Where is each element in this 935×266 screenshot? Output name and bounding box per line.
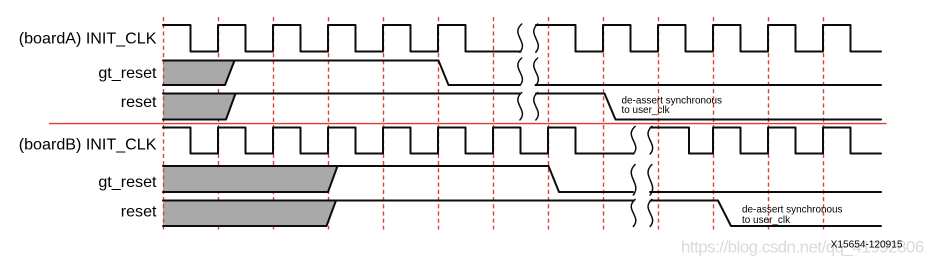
svg-text:to user_clk: to user_clk bbox=[742, 215, 790, 226]
gridline x=163 bbox=[163, 17, 165, 230]
gray dont-care region boardA gt_reset bbox=[163, 61, 235, 86]
time-break squiggle boardB clock right bbox=[648, 126, 653, 154]
gridline x=713 bbox=[713, 17, 715, 230]
waveform boardA reset high/fall/low bbox=[163, 94, 881, 120]
gridline x=493 bbox=[493, 17, 495, 230]
waveform boardA reset dont-care bottom edge and rise bbox=[163, 94, 236, 120]
red dashed clock gridlines bbox=[219, 17, 824, 230]
svg-text:(boardB) INIT_CLK: (boardB) INIT_CLK bbox=[19, 136, 157, 154]
time-break squiggle boardA reset left bbox=[518, 93, 523, 121]
time-break squiggle boardB gt_reset right bbox=[648, 165, 653, 196]
time-break squiggle boardA clock left bbox=[518, 24, 523, 52]
svg-text:X15654-120915: X15654-120915 bbox=[831, 240, 903, 251]
time-break squiggle boardB clock left bbox=[631, 126, 636, 154]
gridline x=218 bbox=[218, 17, 220, 230]
time-break squiggle boardB gt_reset left bbox=[631, 165, 636, 196]
svg-text:gt_reset: gt_reset bbox=[98, 173, 157, 191]
gridline x=603 bbox=[603, 17, 605, 230]
svg-text:reset: reset bbox=[121, 93, 157, 111]
time-break squiggle boardB reset left bbox=[631, 199, 636, 226]
gridline x=273 bbox=[273, 17, 275, 230]
gridline x=658 bbox=[658, 17, 660, 230]
svg-text:reset: reset bbox=[121, 202, 157, 220]
gridline x=823 bbox=[823, 17, 825, 230]
waveform boardB gt_reset dont-care bottom edge and rise bbox=[163, 166, 338, 192]
gridline x=768 bbox=[768, 17, 770, 230]
time-break squiggle boardA gt_reset left bbox=[518, 58, 523, 86]
svg-text:to user_clk: to user_clk bbox=[622, 105, 670, 116]
waveform boardA gt_reset high/fall/low bbox=[163, 61, 881, 86]
waveform boardA gt_reset dont-care bottom edge and rise bbox=[163, 61, 235, 86]
waveform boardA INIT_CLK bbox=[163, 25, 881, 52]
gray dont-care region boardB reset bbox=[163, 201, 336, 227]
time-break squiggle boardA reset right bbox=[534, 93, 539, 121]
gridline x=328 bbox=[328, 17, 330, 230]
time-break squiggle boardA gt_reset right bbox=[534, 58, 539, 86]
svg-text:gt_reset: gt_reset bbox=[98, 64, 157, 82]
gray dont-care region boardB gt_reset bbox=[163, 166, 338, 192]
gridline x=438 bbox=[438, 17, 440, 230]
red horizontal separator line bbox=[49, 123, 887, 125]
svg-text:(boardA) INIT_CLK: (boardA) INIT_CLK bbox=[19, 30, 157, 48]
time-break squiggle boardB reset right bbox=[648, 199, 653, 226]
waveform boardB reset high/fall/low bbox=[163, 201, 881, 227]
gray dont-care region boardA reset bbox=[163, 94, 236, 120]
gridline x=548 bbox=[548, 17, 550, 230]
waveform boardB INIT_CLK bbox=[163, 128, 881, 154]
waveform boardB reset dont-care bottom edge and rise bbox=[163, 201, 336, 227]
gridline x=383 bbox=[383, 17, 385, 230]
waveform boardB gt_reset high/fall/low bbox=[163, 166, 881, 192]
time-break squiggle boardA clock right bbox=[534, 24, 539, 52]
